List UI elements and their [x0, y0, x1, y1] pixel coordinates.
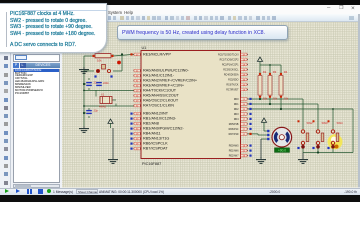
svg-text:4MHZ: 4MHZ — [99, 105, 106, 109]
svg-text:RB2/AN8: RB2/AN8 — [143, 122, 159, 126]
svg-text:RC4/SDI/SDA: RC4/SDI/SDA — [224, 74, 239, 77]
svg-text:RA4/T0CKI/C1OUT: RA4/T0CKI/C1OUT — [143, 89, 177, 93]
svg-text:+90.0: +90.0 — [278, 149, 286, 153]
svg-text:RD5/P1B: RD5/P1B — [229, 124, 239, 126]
svg-text:RC2/P1A/CCP1: RC2/P1A/CCP1 — [222, 64, 239, 67]
svg-text:RB6/ICSPCLK: RB6/ICSPCLK — [143, 142, 168, 146]
svg-text:RD0: RD0 — [234, 99, 239, 101]
svg-text:RB3/AN9/PGM/C12IN2-: RB3/AN9/PGM/C12IN2- — [143, 127, 184, 131]
svg-text:10k: 10k — [273, 96, 278, 100]
svg-text:RC5/SDO: RC5/SDO — [228, 80, 239, 82]
svg-text:RE3/MCLR/VPP: RE3/MCLR/VPP — [143, 53, 171, 57]
svg-text:R2: R2 — [263, 70, 267, 74]
svg-text:RA3/AN3/VREF+/C1IN+: RA3/AN3/VREF+/C1IN+ — [143, 84, 185, 88]
svg-text:22p: 22p — [94, 108, 99, 112]
svg-text:RB0/AN12/INT: RB0/AN12/INT — [143, 112, 169, 116]
svg-text:U1: U1 — [142, 46, 147, 50]
svg-text:10k: 10k — [284, 96, 289, 100]
svg-text:RD7/P1D: RD7/P1D — [229, 134, 239, 136]
svg-text:220n: 220n — [103, 81, 109, 85]
svg-text:RA1/AN1/C12IN1-: RA1/AN1/C12IN1- — [143, 74, 175, 78]
svg-text:RE1/AN6: RE1/AN6 — [229, 150, 239, 153]
svg-text:RA0/AN0/ULPWU/C12IN0-: RA0/AN0/ULPWU/C12IN0- — [143, 69, 190, 73]
svg-text:RB7/ICSPDAT: RB7/ICSPDAT — [143, 147, 168, 151]
svg-text:RD3: RD3 — [234, 114, 239, 116]
svg-text:SW3: SW3 — [322, 121, 329, 125]
svg-text:RB1/AN10/C12IN3-: RB1/AN10/C12IN3- — [143, 117, 177, 121]
svg-text:10k: 10k — [97, 59, 102, 63]
svg-text:RE0/AN5: RE0/AN5 — [229, 145, 239, 148]
svg-text:R4: R4 — [284, 70, 288, 74]
svg-text:10k: 10k — [263, 96, 268, 100]
svg-text:RE2/AN7: RE2/AN7 — [229, 155, 239, 158]
svg-text:PIC16F887: PIC16F887 — [142, 162, 161, 166]
svg-text:RC1/T1OSI/CCP2: RC1/T1OSI/CCP2 — [220, 60, 240, 62]
svg-text:R3: R3 — [273, 70, 277, 74]
svg-text:SW4: SW4 — [337, 121, 344, 125]
svg-text:RC6/TX/CK: RC6/TX/CK — [226, 85, 239, 87]
svg-text:RA5/AN4/SS/C2OUT: RA5/AN4/SS/C2OUT — [143, 94, 180, 98]
svg-text:RD2: RD2 — [234, 109, 239, 111]
svg-text:RD4: RD4 — [234, 119, 239, 121]
svg-text:RB5/AN13/T1G: RB5/AN13/T1G — [143, 137, 169, 141]
svg-text:RA2/AN2/VREF-/CVREF/C2IN+: RA2/AN2/VREF-/CVREF/C2IN+ — [143, 79, 198, 83]
svg-text:RC0/T1OSO/T1CKI: RC0/T1OSO/T1CKI — [218, 55, 239, 57]
svg-text:RC7/RX/DT: RC7/RX/DT — [226, 90, 239, 92]
svg-text:RC3/SCK/SCL: RC3/SCK/SCL — [223, 70, 239, 72]
svg-text:RA7/OSC1/CLKIN: RA7/OSC1/CLKIN — [143, 104, 174, 108]
svg-text:RA6/OSC2/CLKOUT: RA6/OSC2/CLKOUT — [143, 99, 179, 103]
svg-text:SW2: SW2 — [307, 121, 314, 125]
svg-text:X1: X1 — [101, 92, 105, 96]
svg-text:RD1: RD1 — [234, 104, 239, 106]
svg-text:RB4/AN11: RB4/AN11 — [143, 132, 161, 136]
svg-text:RD6/P1C: RD6/P1C — [229, 129, 239, 131]
